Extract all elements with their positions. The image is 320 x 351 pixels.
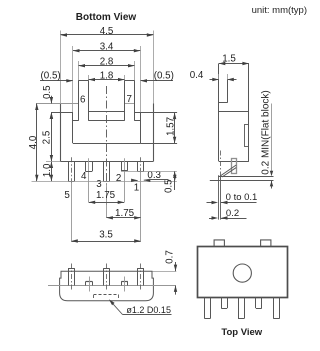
dimension 1.75 (leads 4-2 pitch) bbox=[89, 202, 125, 204]
extension line flange bottom to left bbox=[46, 161, 61, 163]
dimension 0.7 (lead protrusion) bbox=[175, 262, 177, 271]
side view mold parting line bbox=[219, 111, 249, 113]
dimension 0.2 MIN flat block bbox=[271, 104, 273, 173]
svg-text:3.4: 3.4 bbox=[100, 42, 114, 53]
svg-text:Top View: Top View bbox=[221, 327, 262, 338]
front view lead 3 (long) bbox=[103, 268, 105, 285]
dimension 3.5 (lead 5-1 span) bbox=[71, 241, 140, 243]
svg-text:2.5: 2.5 bbox=[41, 130, 52, 144]
gray lead center extension lines bbox=[71, 157, 73, 182]
dimension 0.3 (lead width, pin1) bbox=[132, 180, 138, 182]
right dimension 0.5 (lead length diff) bbox=[174, 171, 176, 190]
dimension 1.5 (body depth) bbox=[219, 62, 226, 65]
svg-text:1.0: 1.0 bbox=[42, 163, 53, 177]
svg-text:1.8: 1.8 bbox=[100, 70, 114, 81]
dimension (0.5) left bbox=[40, 80, 73, 82]
dimension 3.4 (mold width) bbox=[73, 50, 140, 52]
extension lines for top stacked dimensions bbox=[60, 31, 62, 104]
dimension 0.4 (tab thickness) bbox=[210, 79, 219, 81]
svg-text:ø1.2 D0.15: ø1.2 D0.15 bbox=[126, 305, 171, 315]
dimension 2.8 (tab outer span) bbox=[79, 65, 135, 67]
upper lead 7 (tab) bbox=[124, 80, 126, 120]
svg-text:0 to 0.1: 0 to 0.1 bbox=[226, 192, 258, 203]
front view lead 5 (long) bbox=[68, 268, 70, 285]
svg-text:3.5: 3.5 bbox=[99, 230, 113, 241]
svg-text:2.8: 2.8 bbox=[100, 57, 114, 68]
svg-text:Bottom View: Bottom View bbox=[76, 12, 137, 23]
svg-text:0.5: 0.5 bbox=[164, 179, 175, 193]
seating plane line bbox=[210, 180, 274, 182]
top view dimple circle bbox=[233, 264, 251, 282]
front view hidden dimple (dashed) bbox=[94, 294, 120, 296]
flange top edge (light) bbox=[36, 103, 79, 105]
svg-text:unit: mm(typ): unit: mm(typ) bbox=[252, 5, 307, 16]
side view hidden lead (gray) bbox=[232, 159, 237, 174]
svg-text:(0.5): (0.5) bbox=[154, 71, 174, 82]
cavity bottom edge bbox=[73, 143, 140, 145]
svg-text:7: 7 bbox=[126, 94, 131, 105]
svg-text:5: 5 bbox=[64, 190, 70, 201]
front view ext line body top bbox=[152, 271, 176, 273]
left dimension 4.0 (overall height) bbox=[36, 104, 38, 182]
svg-text:2: 2 bbox=[116, 173, 121, 184]
dimension 0 to 0.1 (lead tip gap) bbox=[207, 202, 213, 204]
front view flange line (gray) bbox=[48, 285, 176, 287]
extension line lead bottoms bbox=[32, 181, 177, 183]
svg-text:1.75: 1.75 bbox=[96, 190, 116, 201]
dimension 4.5 (overall width) bbox=[61, 34, 154, 36]
svg-text:3: 3 bbox=[96, 179, 102, 190]
side view dimple slot bbox=[245, 125, 249, 147]
front view lead 2 (short) bbox=[121, 281, 123, 285]
upper lead 6 (tab) bbox=[78, 80, 80, 120]
flange body outline (bottom view) bbox=[60, 104, 62, 162]
svg-text:4: 4 bbox=[81, 171, 87, 182]
dimension 0.2 (lead tip) bbox=[209, 218, 212, 220]
top view tab left bbox=[214, 240, 224, 246]
mold top edge left bbox=[51, 112, 73, 114]
mold side walls bbox=[72, 112, 74, 143]
svg-text:4.5: 4.5 bbox=[100, 26, 114, 37]
svg-text:1.75: 1.75 bbox=[115, 208, 135, 219]
svg-text:1: 1 bbox=[134, 182, 139, 193]
svg-text:0.2: 0.2 bbox=[226, 208, 239, 219]
svg-text:1.5: 1.5 bbox=[222, 53, 236, 64]
mold inner step left bbox=[73, 120, 79, 122]
centerline of bottom view bbox=[106, 86, 108, 205]
left dimension 0.5 (flange top to mold top) bbox=[51, 96, 53, 104]
svg-text:0.4: 0.4 bbox=[190, 70, 204, 81]
svg-text:6: 6 bbox=[80, 95, 86, 106]
side view lead tip centerline bbox=[220, 151, 222, 176]
dimension 1.75 (leads 3-1 pitch) bbox=[106, 217, 140, 219]
side view bent lead bbox=[220, 165, 237, 177]
dimension (0.5) right bbox=[141, 80, 174, 82]
front view lead 1 (long) bbox=[137, 268, 139, 285]
svg-text:0.5: 0.5 bbox=[42, 85, 53, 99]
top view body outline bbox=[198, 247, 288, 298]
front view lead 4 (short) bbox=[85, 281, 87, 285]
side view lead foot bbox=[218, 176, 273, 178]
side view body outline bbox=[219, 63, 249, 65]
mold inner step right bbox=[135, 120, 141, 122]
mold top edge right with ext to 1.57 bbox=[135, 112, 178, 114]
svg-text:4.0: 4.0 bbox=[28, 135, 39, 149]
svg-text:1.57: 1.57 bbox=[165, 117, 176, 136]
side view embedded tab edge bbox=[227, 80, 229, 103]
dimple callout leader bbox=[110, 301, 122, 315]
lead tip verticals bbox=[218, 175, 220, 219]
top view tab right bbox=[261, 240, 271, 246]
right dimension 1.57 (mold top to cavity bottom) bbox=[174, 113, 176, 144]
front view body outline bbox=[60, 271, 154, 301]
dimension 1.8 (tab inner span) bbox=[89, 79, 125, 81]
svg-text:(0.5): (0.5) bbox=[41, 71, 61, 82]
top view leads bbox=[204, 298, 206, 319]
bottom leads of bottom view bbox=[68, 162, 70, 182]
left dimension 2.5 bbox=[51, 112, 53, 161]
die pad block between tabs bbox=[89, 111, 125, 113]
svg-text:0.2 MIN(Flat block): 0.2 MIN(Flat block) bbox=[261, 90, 272, 174]
svg-text:0.7: 0.7 bbox=[165, 250, 176, 264]
left dimension 1.0 (lead length) bbox=[51, 162, 53, 182]
